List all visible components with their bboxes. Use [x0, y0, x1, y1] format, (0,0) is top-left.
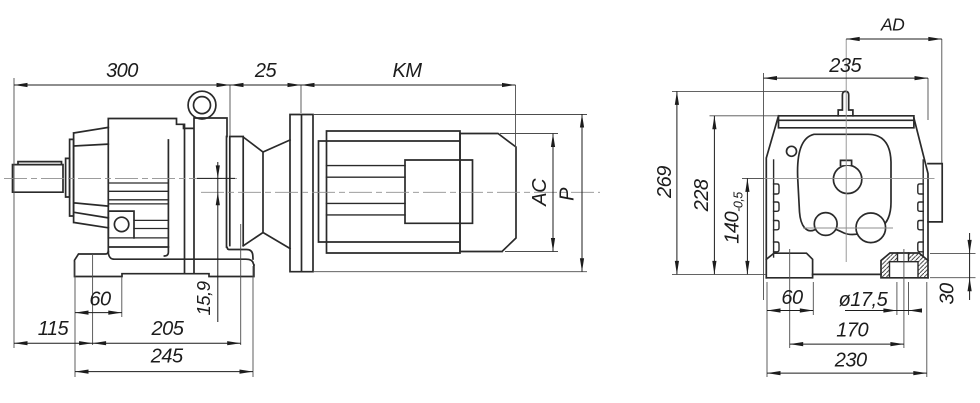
svg-text:60: 60 — [781, 287, 803, 309]
housing horizontal lines — [108, 183, 168, 238]
svg-text:P: P — [556, 187, 578, 201]
housing left edge — [766, 116, 778, 278]
front bell cone — [74, 127, 109, 227]
output bore circle — [833, 165, 861, 193]
lower shaft circle small — [814, 213, 837, 236]
ext foot left — [74, 262, 76, 377]
rear bearing cap plate — [227, 137, 254, 260]
dim line P — [581, 114, 583, 272]
motor flange — [290, 115, 313, 272]
ext 235 right — [927, 78, 929, 120]
left foot pad — [766, 253, 812, 278]
front bearing cap — [70, 139, 74, 216]
shaft collar — [66, 158, 70, 197]
svg-text:30: 30 — [937, 283, 959, 305]
output shaft — [13, 165, 64, 193]
housing inner wall line left — [773, 160, 775, 257]
svg-text:15,9: 15,9 — [193, 281, 214, 315]
arrows 60 right — [767, 308, 781, 312]
arrows 300 — [14, 83, 28, 87]
gearbox feet — [75, 252, 254, 277]
arrows 245 — [75, 370, 89, 374]
arrows 30 — [968, 240, 972, 254]
housing inner rib — [164, 140, 168, 256]
svg-text:60: 60 — [89, 289, 111, 311]
dim line 30 — [969, 233, 971, 300]
eye bolt ring — [188, 91, 216, 119]
breather plug — [838, 91, 853, 115]
gearbox housing body — [108, 118, 227, 273]
svg-text:300: 300 — [106, 60, 138, 82]
ext line motor rear — [515, 85, 517, 192]
arrows d17.5 — [883, 308, 897, 312]
dim line 60 right — [767, 310, 813, 312]
arrows 60 left — [75, 311, 89, 315]
arrows 140 — [745, 178, 749, 192]
ext line motor flange face — [300, 85, 302, 113]
ext lines P — [313, 115, 587, 272]
foot hole centerline left — [92, 254, 94, 345]
foot hole centerline right — [240, 224, 242, 345]
svg-text:25: 25 — [254, 60, 278, 82]
ext line gearbox rear face — [229, 85, 231, 136]
arrows 205 — [93, 341, 107, 345]
right foot hatching — [881, 253, 898, 278]
motor rear bell — [460, 134, 516, 252]
svg-text:269: 269 — [654, 166, 676, 199]
svg-text:228: 228 — [691, 179, 713, 212]
ext foot recess — [121, 277, 123, 317]
gear cover squircle — [798, 134, 891, 234]
dim line 228 — [713, 116, 715, 275]
ext lines AC — [500, 134, 558, 252]
dim line 269 — [676, 91, 678, 274]
svg-text:170: 170 — [836, 319, 868, 341]
ext feet right view — [767, 282, 927, 377]
dim line AC — [552, 134, 554, 252]
dim line 235 — [764, 77, 929, 79]
ext 269/228/140 bottom — [672, 273, 766, 275]
output keyway — [841, 160, 852, 165]
svg-text:AD: AD — [880, 15, 905, 35]
arrows P — [580, 114, 584, 128]
dim line d17.5 — [845, 310, 922, 312]
side boss right — [928, 164, 942, 222]
shaft key — [18, 162, 62, 165]
ext 228 top — [710, 115, 779, 117]
right view horizontal axis — [742, 177, 935, 179]
arrows 228 — [712, 116, 716, 130]
dim line 60 left — [75, 312, 122, 314]
arrows 170 — [790, 342, 804, 346]
motor axis centerline — [201, 191, 600, 193]
dim line 300/25/KM — [14, 84, 516, 86]
arrows AD — [846, 37, 860, 41]
right foot (sectioned) — [881, 253, 928, 278]
top cover strip — [779, 116, 914, 128]
dim line 245 — [75, 371, 253, 373]
arrows 25 — [230, 83, 244, 87]
foot ledge — [108, 252, 254, 266]
adapter cone — [243, 137, 290, 249]
motor stator — [319, 131, 461, 253]
dim line AD — [846, 38, 942, 40]
ext foot right — [252, 266, 254, 377]
arrows 230 — [767, 371, 781, 375]
oil plug circle — [114, 217, 128, 231]
lower shaft circle large — [856, 213, 886, 243]
housing right edge — [914, 118, 928, 278]
dim line 230 — [767, 372, 927, 374]
svg-text:ø17,5: ø17,5 — [839, 289, 889, 311]
svg-text:205: 205 — [150, 318, 184, 340]
right foot bore — [890, 253, 919, 278]
arrows AC — [551, 134, 555, 148]
svg-text:245: 245 — [150, 346, 184, 368]
dim line 170 — [790, 343, 904, 345]
side rib tabs left — [774, 184, 779, 252]
lower circles axis — [803, 227, 893, 229]
svg-text:AC: AC — [529, 178, 551, 207]
dim line 140 — [746, 178, 748, 274]
motor fins — [327, 166, 406, 215]
foot hole centerlines right view — [790, 249, 904, 348]
dim line 15.9 — [197, 162, 235, 322]
inspection plug circle — [787, 146, 797, 156]
right view vertical axis — [845, 39, 847, 262]
svg-text:KM: KM — [393, 60, 423, 82]
arrows 269 — [675, 91, 679, 105]
dim line 115/205 — [14, 342, 241, 344]
ext AD right — [941, 39, 943, 163]
ext 235 left — [763, 73, 765, 300]
side rib tabs right — [918, 184, 923, 252]
housing bottom between feet — [813, 273, 881, 275]
ext 140 top — [742, 177, 764, 179]
oil plug block — [108, 211, 134, 238]
svg-text:115: 115 — [38, 318, 70, 340]
svg-text:235: 235 — [828, 55, 862, 77]
ext 30 — [930, 253, 976, 277]
arrows KM — [301, 83, 315, 87]
housing inner wall line right — [922, 160, 924, 257]
ext 269 top — [672, 90, 843, 92]
terminal box — [405, 160, 473, 223]
arrows 15.9 — [216, 165, 220, 178]
arrows 235 — [764, 76, 778, 80]
ext line shaft end — [13, 78, 15, 348]
arrows 115 — [14, 341, 28, 345]
svg-text:230: 230 — [834, 350, 867, 372]
gearbox axis centerline — [4, 177, 237, 179]
